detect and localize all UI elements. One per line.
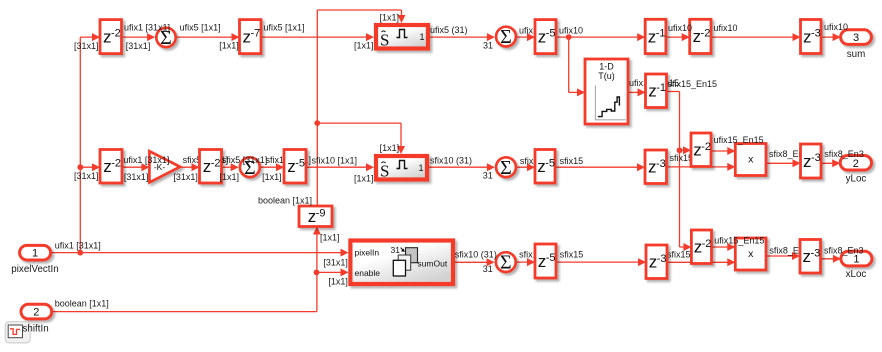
svg-text:-3: -3 xyxy=(656,158,666,170)
svg-text:-9: -9 xyxy=(316,207,326,219)
svg-text:xLoc: xLoc xyxy=(846,269,867,280)
svg-text:3: 3 xyxy=(853,32,859,44)
svg-text:-5: -5 xyxy=(295,157,305,169)
svg-text:ufix5 (31): ufix5 (31) xyxy=(430,25,468,35)
svg-text:-3: -3 xyxy=(811,28,821,40)
svg-text:-2: -2 xyxy=(111,157,121,169)
svg-text:ufix10: ufix10 xyxy=(559,26,583,36)
svg-text:T(u): T(u) xyxy=(598,71,615,81)
svg-text:Σ: Σ xyxy=(500,157,512,179)
svg-text:sumOut: sumOut xyxy=(417,259,447,269)
svg-text:ufix10: ufix10 xyxy=(824,22,848,32)
svg-text:boolean [1x1]: boolean [1x1] xyxy=(258,196,312,206)
svg-text:sum: sum xyxy=(847,49,866,60)
svg-text:1: 1 xyxy=(32,248,38,260)
svg-text:-7: -7 xyxy=(250,28,260,40)
svg-text:sfix8_En3: sfix8_En3 xyxy=(824,149,864,159)
svg-text:[31x1]: [31x1] xyxy=(74,171,99,181)
svg-text:-2: -2 xyxy=(111,28,121,40)
svg-text:ufix5 [1x1]: ufix5 [1x1] xyxy=(180,22,221,32)
svg-text:[31x1]: [31x1] xyxy=(173,172,198,182)
svg-text:Σ: Σ xyxy=(500,252,512,274)
svg-text:ufix10: ufix10 xyxy=(668,23,692,33)
svg-text:S: S xyxy=(380,31,389,50)
svg-text:ufix1 [31x1]: ufix1 [31x1] xyxy=(124,22,170,32)
svg-text:sfix10 [1x1]: sfix10 [1x1] xyxy=(312,156,358,166)
svg-text:2: 2 xyxy=(853,158,859,170)
svg-text:-5: -5 xyxy=(546,28,556,40)
svg-text:ufix1 [31x1]: ufix1 [31x1] xyxy=(55,241,101,251)
svg-text:Σ: Σ xyxy=(500,26,512,48)
svg-text:[1x1]: [1x1] xyxy=(380,143,400,153)
svg-text:pixelVectIn: pixelVectIn xyxy=(11,264,58,275)
svg-text:[1x1]: [1x1] xyxy=(354,41,374,51)
svg-text:2: 2 xyxy=(33,307,39,319)
svg-text:[31x1]: [31x1] xyxy=(124,172,149,182)
svg-text:x: x xyxy=(748,248,754,260)
svg-text:sfix5 [31x1]: sfix5 [31x1] xyxy=(222,155,268,165)
svg-text:-3: -3 xyxy=(657,253,667,265)
svg-text:sfix10 (31): sfix10 (31) xyxy=(455,250,497,260)
svg-text:1: 1 xyxy=(418,163,423,173)
svg-text:[1x1]: [1x1] xyxy=(220,172,240,182)
svg-text:yLoc: yLoc xyxy=(846,174,867,185)
svg-text:enable: enable xyxy=(355,268,381,278)
svg-text:ufix15_En15: ufix15_En15 xyxy=(714,135,764,145)
svg-text:[31x1]: [31x1] xyxy=(323,258,348,268)
svg-text:sfix8_En3: sfix8_En3 xyxy=(824,246,864,256)
svg-text:31: 31 xyxy=(391,245,401,255)
svg-text:[1x1]: [1x1] xyxy=(328,277,348,287)
svg-text:-5: -5 xyxy=(545,157,555,169)
svg-text:ufix5 [1x1]: ufix5 [1x1] xyxy=(264,22,305,32)
svg-text:pixelIn: pixelIn xyxy=(355,248,380,258)
svg-text:-1: -1 xyxy=(656,27,666,39)
svg-text:ufix1 [31x1]: ufix1 [31x1] xyxy=(123,155,169,165)
svg-text:-2: -2 xyxy=(701,27,711,39)
svg-text:31: 31 xyxy=(483,264,493,274)
svg-text:31: 31 xyxy=(483,171,493,181)
svg-text:sfix15: sfix15 xyxy=(670,153,694,163)
svg-text:ufix10: ufix10 xyxy=(714,23,738,33)
svg-text:-2: -2 xyxy=(701,141,711,153)
svg-text:sfix15_En15: sfix15_En15 xyxy=(668,79,718,89)
svg-text:[1x1]: [1x1] xyxy=(380,13,400,23)
svg-text:[1x1]: [1x1] xyxy=(354,174,374,184)
svg-text:-1: -1 xyxy=(656,82,666,94)
svg-text:[31x1]: [31x1] xyxy=(126,41,151,51)
svg-text:S: S xyxy=(380,162,389,181)
svg-text:shiftIn: shiftIn xyxy=(23,324,49,335)
svg-text:1: 1 xyxy=(419,32,424,42)
svg-text:-3: -3 xyxy=(811,152,821,164)
svg-text:x: x xyxy=(748,154,754,166)
svg-text:sfix15: sfix15 xyxy=(560,250,584,260)
svg-text:-5: -5 xyxy=(546,252,556,264)
svg-text:[1x1]: [1x1] xyxy=(262,172,282,182)
svg-text:sfix15: sfix15 xyxy=(560,156,584,166)
svg-text:sfix10 (31): sfix10 (31) xyxy=(430,155,472,165)
svg-text:-2: -2 xyxy=(702,238,712,250)
svg-text:-3: -3 xyxy=(810,247,820,259)
svg-text:[1x1]: [1x1] xyxy=(219,41,239,51)
svg-text:ufix15_En15: ufix15_En15 xyxy=(714,235,764,245)
svg-text:31: 31 xyxy=(483,41,493,51)
svg-text:[1x1]: [1x1] xyxy=(320,233,340,243)
svg-text:sfix15: sfix15 xyxy=(667,250,691,260)
svg-text:-2: -2 xyxy=(211,157,221,169)
svg-text:boolean [1x1]: boolean [1x1] xyxy=(55,299,109,309)
svg-text:[31x1]: [31x1] xyxy=(74,41,99,51)
